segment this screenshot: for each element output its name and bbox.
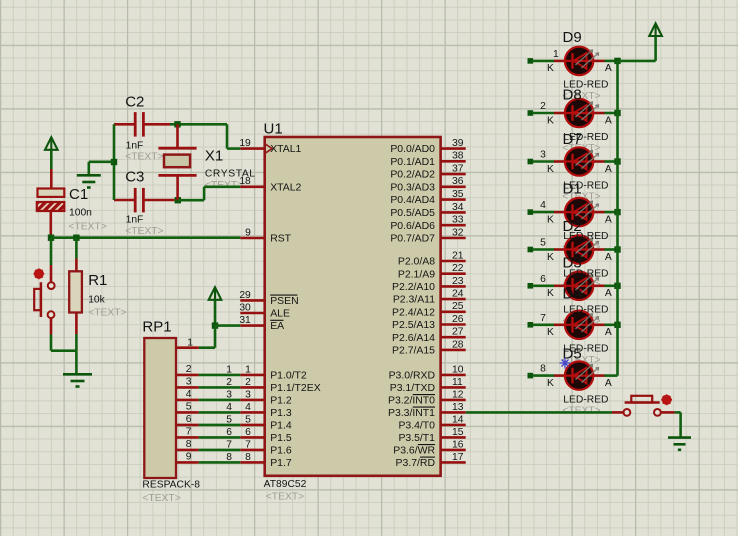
power symbol top right <box>649 23 662 36</box>
svg-text:<TEXT>: <TEXT> <box>142 493 180 504</box>
svg-text:5: 5 <box>540 238 546 249</box>
U1 pin 17 stub <box>441 461 466 464</box>
svg-text:P2.2/A10: P2.2/A10 <box>392 282 435 293</box>
svg-text:P3.2/INT0: P3.2/INT0 <box>388 396 435 407</box>
svg-text:P2.3/A11: P2.3/A11 <box>393 295 435 306</box>
U1 pin 14 stub <box>441 424 466 427</box>
LED D4 (LED-RED) <box>565 311 593 339</box>
svg-text:P3.5/T1: P3.5/T1 <box>398 433 435 444</box>
svg-text:X1: X1 <box>205 147 223 164</box>
svg-text:P2.5/A13: P2.5/A13 <box>392 320 435 331</box>
wire D7 cathode red stub <box>554 160 565 163</box>
U1 pin 29 overline <box>270 294 297 296</box>
U1 XTAL1 clock marker <box>265 144 272 153</box>
svg-text:RESPACK-8: RESPACK-8 <box>142 479 200 490</box>
U1 pin 24 stub <box>441 298 466 301</box>
U1 pin 22 stub <box>441 272 466 275</box>
wire button bottom green <box>50 335 53 351</box>
svg-text:P3.4/T0: P3.4/T0 <box>398 421 435 432</box>
svg-text:2: 2 <box>245 377 251 388</box>
wire SW2 right red stub <box>661 411 675 414</box>
svg-text:K: K <box>547 327 554 338</box>
capacitor C1 top plate <box>38 189 65 197</box>
U1 pin 32 stub <box>441 237 466 240</box>
wire XTAL1 net to pin 19 <box>227 147 240 150</box>
svg-text:7: 7 <box>540 313 546 324</box>
wire RP1 pin 6 to U1 P1.4 <box>199 424 241 427</box>
node D1 anode rail junction <box>614 209 620 215</box>
svg-text:P3.6/WR: P3.6/WR <box>393 446 435 457</box>
node D3 anode rail junction <box>614 283 620 289</box>
wire D9 anode red stub <box>593 60 604 63</box>
wire D9 anode green <box>605 60 618 63</box>
svg-text:23: 23 <box>452 276 464 287</box>
U1 pin 12 stub <box>441 399 466 402</box>
U1 pin 15 stub <box>441 436 466 439</box>
svg-text:RST: RST <box>270 234 291 245</box>
wire D1 cathode green <box>533 211 555 214</box>
wire button top green <box>50 238 53 265</box>
U1 pin 16 stub <box>441 449 466 452</box>
node D2 anode rail junction <box>614 246 620 252</box>
wire D2 cathode green <box>533 248 555 251</box>
U1 pin 21 stub <box>441 260 466 263</box>
wire D4 anode green <box>605 323 618 326</box>
node D9 anode rail junction <box>614 58 620 64</box>
LED D9 (LED-RED) <box>565 47 593 75</box>
svg-text:13: 13 <box>452 402 464 413</box>
wire crystal bottom pin <box>176 175 179 200</box>
wire button to R1 bottom <box>51 349 76 352</box>
RP1 pin 6 stub <box>176 424 199 427</box>
wire rail to ground <box>89 161 114 164</box>
svg-text:21: 21 <box>452 250 464 261</box>
svg-text:A: A <box>605 327 612 338</box>
node D4 cathode wire start <box>528 322 534 328</box>
svg-text:34: 34 <box>452 202 464 213</box>
svg-text:P2.6/A14: P2.6/A14 <box>392 333 435 344</box>
svg-text:P0.3/AD3: P0.3/AD3 <box>390 182 435 193</box>
node D9 cathode wire start <box>528 58 534 64</box>
node D7 anode rail junction <box>614 158 620 164</box>
U1 pin 18 stub <box>240 186 264 189</box>
svg-text:RP1: RP1 <box>142 318 171 335</box>
svg-text:8: 8 <box>226 452 232 463</box>
RP1 pin 4 stub <box>176 399 199 402</box>
wire XTAL1 net horizontal <box>170 123 227 126</box>
wire power stem top right <box>654 37 657 61</box>
svg-text:A: A <box>605 63 612 74</box>
node EA junction <box>212 322 218 328</box>
U1 pin 7 stub <box>240 449 264 452</box>
wire RP1 pin 3 to U1 P1.1 <box>199 386 241 389</box>
wire D7 anode green <box>605 160 618 163</box>
svg-text:P0.2/AD2: P0.2/AD2 <box>390 170 435 181</box>
svg-text:4: 4 <box>226 402 232 413</box>
svg-text:A: A <box>605 214 612 225</box>
wire R1 bottom pin red <box>75 313 78 335</box>
svg-text:P0.5/AD5: P0.5/AD5 <box>390 208 435 219</box>
wire D4 cathode red stub <box>554 323 565 326</box>
svg-text:8: 8 <box>186 439 192 450</box>
U1 pin 16 partial overline <box>418 444 435 446</box>
RP1 pin 5 stub <box>176 411 199 414</box>
svg-text:8: 8 <box>245 452 251 463</box>
svg-text:P0.1/AD1: P0.1/AD1 <box>390 157 435 168</box>
wire D2 anode green <box>605 248 618 251</box>
wire RST net <box>51 236 240 239</box>
svg-text:16: 16 <box>452 439 464 450</box>
svg-text:1: 1 <box>187 338 193 349</box>
U1 pin 13 stub <box>441 411 466 414</box>
wire D1 anode red stub <box>593 211 604 214</box>
svg-text:P1.2: P1.2 <box>270 396 292 407</box>
svg-text:24: 24 <box>452 289 464 300</box>
svg-text:10k: 10k <box>88 294 105 305</box>
resistor R1 <box>69 271 82 312</box>
U1 pin 29 stub <box>240 299 264 302</box>
svg-text:A: A <box>605 252 612 263</box>
RP1 pin 3 stub <box>176 386 199 389</box>
svg-text:32: 32 <box>452 227 464 238</box>
svg-text:P3.0/RXD: P3.0/RXD <box>389 371 436 382</box>
svg-text:D3: D3 <box>563 254 582 271</box>
svg-text:<TEXT>: <TEXT> <box>69 222 107 233</box>
svg-text:11: 11 <box>452 377 463 388</box>
U1 pin 8 stub <box>240 461 264 464</box>
svg-text:7: 7 <box>186 427 192 438</box>
wire D1 cathode red stub <box>554 211 565 214</box>
svg-text:36: 36 <box>452 176 464 187</box>
svg-text:D1: D1 <box>563 180 582 197</box>
svg-text:K: K <box>547 378 554 389</box>
resistor pack RP1 <box>144 338 176 478</box>
origin marker <box>560 358 571 369</box>
svg-text:P2.7/A15: P2.7/A15 <box>392 346 435 357</box>
svg-text:26: 26 <box>452 314 464 325</box>
wire C3 right pin <box>143 199 174 202</box>
svg-text:P1.7: P1.7 <box>270 458 292 469</box>
svg-text:P1.0/T2: P1.0/T2 <box>270 371 307 382</box>
wire RP1 pin 5 to U1 P1.3 <box>199 411 241 414</box>
svg-text:K: K <box>547 63 554 74</box>
svg-text:XTAL1: XTAL1 <box>270 144 301 155</box>
ground bottom right <box>668 436 691 439</box>
wire button top red <box>50 265 53 282</box>
svg-text:K: K <box>547 214 554 225</box>
svg-text:5: 5 <box>245 414 251 425</box>
RP1 pin 7 stub <box>176 436 199 439</box>
wire C2 left pin <box>114 123 135 126</box>
svg-text:37: 37 <box>452 164 464 175</box>
svg-text:1: 1 <box>245 364 251 375</box>
svg-text:P1.6: P1.6 <box>270 446 292 457</box>
svg-text:3: 3 <box>186 377 192 388</box>
wire D4 anode red stub <box>593 323 604 326</box>
wire R1 top pin green <box>75 238 78 259</box>
U1 pin 4 stub <box>240 411 264 414</box>
svg-text:35: 35 <box>452 189 464 200</box>
wire LED anode rail <box>616 61 619 376</box>
svg-text:39: 39 <box>452 138 464 149</box>
svg-text:14: 14 <box>452 414 464 425</box>
wire D9 cathode red stub <box>554 60 565 63</box>
U1 pin 25 stub <box>441 310 466 313</box>
svg-text:<TEXT>: <TEXT> <box>88 308 126 319</box>
wire ground stem bottom left <box>75 351 78 375</box>
svg-text:6: 6 <box>245 427 251 438</box>
LED D7 (LED-RED) <box>565 147 593 175</box>
svg-text:1: 1 <box>226 364 232 375</box>
U1 pin 31 overline <box>270 319 283 321</box>
wire D7 cathode green <box>533 160 555 163</box>
node D2 cathode wire start <box>528 247 534 253</box>
svg-text:ALE: ALE <box>270 309 290 320</box>
svg-text:K: K <box>547 115 554 126</box>
svg-text:K: K <box>547 164 554 175</box>
svg-text:7: 7 <box>245 439 251 450</box>
ground near cap rail <box>77 174 101 177</box>
svg-text:A: A <box>605 378 612 389</box>
capacitor C2 <box>134 112 137 137</box>
svg-text:7: 7 <box>226 439 232 450</box>
svg-text:R1: R1 <box>88 272 107 289</box>
wire D8 cathode red stub <box>554 112 565 115</box>
svg-text:4: 4 <box>186 389 192 400</box>
svg-text:30: 30 <box>239 302 251 313</box>
svg-text:U1: U1 <box>264 120 283 137</box>
svg-text:K: K <box>547 252 554 263</box>
wire RP1 pin1 horizontal <box>199 346 215 349</box>
svg-text:12: 12 <box>452 389 464 400</box>
svg-text:LED-RED: LED-RED <box>563 394 608 405</box>
wire crystal top pin <box>176 124 179 148</box>
wire RP1 pin 8 to U1 P1.6 <box>199 449 241 452</box>
wire button bottom red <box>50 318 53 334</box>
capacitor C1 bottom plate <box>37 202 65 211</box>
wire D7 anode red stub <box>593 160 604 163</box>
wire D9 cathode green <box>533 60 555 63</box>
U1 pin 36 stub <box>441 186 466 189</box>
node D3 cathode wire start <box>528 283 534 289</box>
U1 pin 1 stub <box>240 374 264 377</box>
svg-text:6: 6 <box>186 414 192 425</box>
wire D3 cathode red stub <box>554 284 565 287</box>
node cap rail junction <box>111 159 117 165</box>
wire SW2 to ground <box>675 411 681 414</box>
crystal X1 <box>158 147 196 150</box>
svg-text:A: A <box>605 164 612 175</box>
svg-text:4: 4 <box>540 200 546 211</box>
svg-text:D4: D4 <box>563 286 582 303</box>
wire D8 cathode green <box>533 112 555 115</box>
U1 pin 35 stub <box>441 198 466 201</box>
svg-text:8: 8 <box>540 364 546 375</box>
svg-text:D7: D7 <box>563 131 582 148</box>
wire RP1 pin 4 to U1 P1.2 <box>199 399 241 402</box>
U1 pin 19 stub <box>240 147 264 150</box>
svg-text:27: 27 <box>452 327 464 338</box>
LED D2 (LED-RED) <box>565 235 593 263</box>
wire left cap rail <box>113 124 116 200</box>
wire D3 anode green <box>605 284 618 287</box>
svg-text:9: 9 <box>245 227 251 238</box>
U1 pin 23 stub <box>441 285 466 288</box>
node C1/RST junction <box>48 235 54 241</box>
wire power to EA junction <box>214 300 217 326</box>
svg-text:9: 9 <box>186 452 192 463</box>
LED D8 (LED-RED) <box>565 99 593 127</box>
wire power to C1 <box>50 150 53 170</box>
svg-text:A: A <box>605 288 612 299</box>
wire D5 cathode red stub <box>554 374 565 377</box>
push button SW1 <box>48 282 55 289</box>
wire C1 bottom pin <box>49 211 52 238</box>
svg-text:19: 19 <box>239 138 251 149</box>
node R1/RST junction <box>73 235 79 241</box>
wire D2 cathode red stub <box>554 248 565 251</box>
wire ground stem bottom right <box>679 412 682 437</box>
LED D1 (LED-RED) <box>565 198 593 226</box>
svg-text:P2.1/A9: P2.1/A9 <box>398 269 435 280</box>
svg-text:P0.6/AD6: P0.6/AD6 <box>390 221 435 232</box>
U1 pin 2 stub <box>240 386 264 389</box>
wire R1 bottom pin green <box>75 334 78 351</box>
LED D5 (LED-RED) <box>565 361 593 389</box>
svg-text:<TEXT>: <TEXT> <box>125 226 163 237</box>
svg-text:P0.7/AD7: P0.7/AD7 <box>390 234 435 245</box>
svg-text:P2.4/A12: P2.4/A12 <box>392 307 435 318</box>
svg-text:3: 3 <box>540 150 546 161</box>
ground bottom left <box>63 373 92 376</box>
wire XTAL2 net to pin 18 <box>204 186 240 189</box>
U1 pin 33 stub <box>441 224 466 227</box>
U1 pin 39 stub <box>441 147 466 150</box>
wire XTAL2 net vertical jog <box>203 187 206 200</box>
svg-text:1nF: 1nF <box>126 214 144 225</box>
svg-text:P1.3: P1.3 <box>270 408 292 419</box>
node D8 cathode wire start <box>528 110 534 116</box>
svg-text:C3: C3 <box>125 168 144 185</box>
U1 pin 3 stub <box>240 399 264 402</box>
svg-text:P3.3/INT1: P3.3/INT1 <box>388 408 435 419</box>
svg-text:3: 3 <box>245 389 251 400</box>
U1 pin 37 stub <box>441 173 466 176</box>
U1 pin 28 stub <box>441 349 466 352</box>
U1 pin 10 stub <box>441 374 466 377</box>
svg-text:3: 3 <box>226 389 232 400</box>
svg-text:29: 29 <box>239 290 251 301</box>
svg-text:P1.1/T2EX: P1.1/T2EX <box>270 383 321 394</box>
svg-text:C2: C2 <box>125 94 144 111</box>
svg-text:38: 38 <box>452 151 464 162</box>
op-amp U1 body (AT89C52 microcontroller) <box>265 137 441 476</box>
wire RP1 pin1 vertical <box>214 326 217 348</box>
svg-text:10: 10 <box>452 364 464 375</box>
wire XTAL2 net horizontal <box>178 199 204 202</box>
U1 pin 12 partial overline <box>413 394 435 396</box>
power symbol above EA junction <box>209 287 222 300</box>
wire XTAL1 net vertical jog <box>226 124 229 148</box>
svg-text:P0.0/AD0: P0.0/AD0 <box>390 144 435 155</box>
svg-text:1: 1 <box>553 49 559 60</box>
U1 pin 11 stub <box>441 386 466 389</box>
svg-text:LED-RED: LED-RED <box>563 305 608 316</box>
svg-text:C1: C1 <box>69 186 88 203</box>
RP1 pin 8 stub <box>176 449 199 452</box>
wire C1 top pin <box>50 169 53 189</box>
wire P3.3 to button <box>466 411 612 414</box>
capacitor C3 <box>134 188 137 213</box>
svg-text:4: 4 <box>245 402 251 413</box>
svg-text:28: 28 <box>452 339 464 350</box>
wire D2 anode red stub <box>593 248 604 251</box>
svg-text:D8: D8 <box>563 87 582 104</box>
wire D5 cathode green <box>533 374 555 377</box>
wire D3 cathode green <box>533 284 555 287</box>
svg-text:1nF: 1nF <box>126 140 144 151</box>
U1 pin 31 stub <box>240 324 264 327</box>
U1 pin 5 stub <box>240 424 264 427</box>
node D1 cathode wire start <box>528 209 534 215</box>
U1 pin 17 partial overline <box>420 456 435 458</box>
power symbol above C1 <box>45 137 58 150</box>
svg-text:P2.0/A8: P2.0/A8 <box>398 257 435 268</box>
svg-text:D9: D9 <box>563 29 582 46</box>
node D4 anode rail junction <box>614 322 620 328</box>
node XTAL1 junction <box>174 121 180 127</box>
svg-text:P3.7/RD: P3.7/RD <box>396 458 436 469</box>
U1 pin 38 stub <box>441 160 466 163</box>
wire C3 left pin <box>114 199 135 202</box>
U1 pin 26 stub <box>441 323 466 326</box>
svg-text:P0.4/AD4: P0.4/AD4 <box>390 195 435 206</box>
wire anode rail to power <box>618 60 656 63</box>
svg-text:P1.4: P1.4 <box>270 421 292 432</box>
wire RP1 pin 7 to U1 P1.5 <box>199 436 241 439</box>
wire D3 anode red stub <box>593 284 604 287</box>
svg-text:2: 2 <box>186 364 192 375</box>
svg-text:AT89C52: AT89C52 <box>264 479 307 490</box>
svg-text:100n: 100n <box>69 207 92 218</box>
svg-text:5: 5 <box>186 402 192 413</box>
RP1 pin 9 stub <box>176 461 199 464</box>
U1 pin 30 stub <box>240 312 264 315</box>
svg-text:PSEN: PSEN <box>270 296 298 307</box>
U1 pin 34 stub <box>441 211 466 214</box>
wire RP1 pin 9 to U1 P1.7 <box>199 461 241 464</box>
wire EA net <box>215 324 240 327</box>
wire D8 anode green <box>605 112 618 115</box>
svg-text:<TEXT>: <TEXT> <box>266 492 304 503</box>
svg-text:15: 15 <box>452 427 464 438</box>
svg-text:2: 2 <box>226 377 232 388</box>
wire D5 anode red stub <box>593 374 604 377</box>
U1 pin 27 stub <box>441 336 466 339</box>
wire R1 top pin red <box>75 259 78 272</box>
svg-text:CRYSTAL: CRYSTAL <box>205 168 256 179</box>
LED D3 (LED-RED) <box>565 272 593 300</box>
node D8 anode rail junction <box>614 110 620 116</box>
svg-text:17: 17 <box>452 452 464 463</box>
svg-text:31: 31 <box>239 315 251 326</box>
node XTAL2 junction <box>175 197 181 203</box>
wire D1 anode green <box>605 211 618 214</box>
svg-text:P3.1/TXD: P3.1/TXD <box>390 383 436 394</box>
svg-text:A: A <box>605 115 612 126</box>
svg-text:EA: EA <box>270 321 284 332</box>
U1 pin 13 partial overline <box>413 406 435 408</box>
